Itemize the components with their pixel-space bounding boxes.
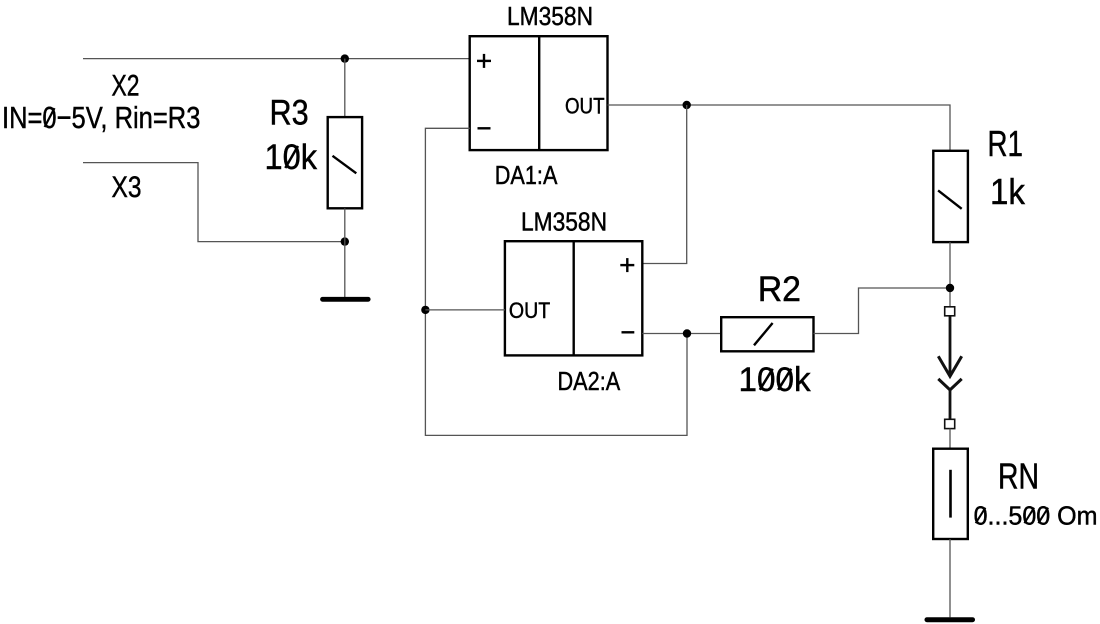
label 100k zero slashes [760,369,791,390]
wire DA2 - input to R2 [642,333,721,335]
node DA2 out junction [421,306,429,314]
wire socket square to RN [949,429,951,449]
svg-text:DA1:A: DA1:A [495,160,558,190]
pin + of DA2 [620,258,634,272]
wire DA1 out node to DA2 + input [642,105,686,264]
svg-text:R3: R3 [270,92,309,132]
node R3 bottom junction [341,237,349,245]
svg-text:OUT: OUT [509,298,551,323]
pin - of DA2 [622,331,635,333]
svg-text:R2: R2 [758,269,801,309]
op-amp U1 DA1:A [470,36,608,150]
wire X3 input to R3 bottom [83,163,345,242]
wire R1 bottom [949,242,951,307]
wire DA1 output to R1 [608,105,951,151]
resistor R3 [328,117,362,208]
wire X2 input to DA1 + [83,58,470,60]
label 0...500 Om zero slashes [976,508,1048,524]
connector socket fork [938,379,961,419]
svg-text:OUT: OUT [565,94,605,119]
svg-text:DA2:A: DA2:A [558,366,621,396]
wire DA1 - input feedback loop to DA2 [425,128,687,435]
node DA2 - input junction [683,329,691,337]
svg-text:LM358N: LM358N [521,207,607,237]
wire DA2 output [425,309,505,311]
svg-text:RN: RN [998,456,1039,497]
svg-text:1k: 1k [990,171,1026,212]
connector pin square bottom [945,419,955,428]
svg-text:IN=0−5V, Rin=R3: IN=0−5V, Rin=R3 [2,100,200,135]
resistor R1 [933,151,968,242]
connector pin square top [945,307,955,316]
node R1 bottom junction [946,284,954,292]
label 10k zero slash [285,146,298,168]
svg-text:X2: X2 [112,70,140,103]
ground right [927,617,973,622]
svg-text:0...500 Om: 0...500 Om [974,500,1098,530]
pin + of DA1 [477,54,491,68]
pin - of DA1 [478,127,491,129]
wire RN to ground [949,539,951,617]
node X2/R3 top junction [341,54,349,62]
svg-text:100k: 100k [739,361,812,399]
svg-text:LM358N: LM358N [507,1,593,31]
op-amp U2 DA2:A [505,241,642,355]
resistor R2 [721,317,813,351]
resistor RN [933,449,968,539]
wire R3 to ground [344,208,346,297]
svg-text:R1: R1 [988,123,1024,164]
node DA1 out junction [683,101,691,109]
wire X2 node to R3 [344,59,346,118]
ground left [323,297,369,302]
svg-text:X3: X3 [112,171,142,204]
connector plug arrow [938,316,961,377]
label IN=0-5V zero slash [45,108,55,127]
wire R2 to R1 bottom node [814,288,951,334]
